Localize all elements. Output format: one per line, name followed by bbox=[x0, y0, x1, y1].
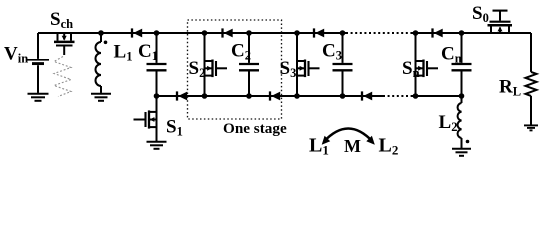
svg-text:One stage: One stage bbox=[223, 120, 287, 137]
wire bottom rail bbox=[157, 95, 384, 97]
transistor S2 bbox=[205, 33, 228, 96]
svg-text:C3: C3 bbox=[322, 41, 342, 63]
transistor S3 bbox=[297, 33, 320, 96]
svg-text:Vin: Vin bbox=[4, 44, 28, 66]
transistor S0 bbox=[488, 11, 513, 33]
svg-text:S2: S2 bbox=[189, 58, 206, 80]
transistor Sn bbox=[416, 33, 439, 96]
one stage dotted box bbox=[188, 20, 282, 119]
node S2 bottom bbox=[202, 93, 208, 99]
node C3 bottom bbox=[340, 93, 346, 99]
wire top rail dotted continuation bbox=[346, 32, 412, 34]
ground (L2) bbox=[452, 149, 471, 156]
capacitor Cn bbox=[452, 33, 472, 96]
node C1 bottom / S1 bbox=[154, 93, 160, 99]
svg-text:L2: L2 bbox=[439, 112, 458, 134]
ground (L1) bbox=[91, 94, 111, 101]
transistor S1 bbox=[134, 96, 157, 141]
node Cn top bbox=[459, 30, 465, 36]
polarity dot L1 bbox=[104, 41, 108, 45]
resistor RL bbox=[526, 33, 537, 125]
node C1 top bbox=[154, 30, 160, 36]
polarity dot L2 bbox=[466, 140, 470, 144]
diode D1 (top rail) bbox=[132, 28, 142, 37]
node S3 bottom bbox=[294, 93, 300, 99]
diode BD1 (bottom rail) bbox=[177, 91, 187, 100]
svg-text:C2: C2 bbox=[231, 41, 251, 63]
node Sn top bbox=[413, 30, 419, 36]
svg-text:L2: L2 bbox=[379, 135, 399, 158]
svg-text:S1: S1 bbox=[166, 117, 183, 139]
node Sn bottom bbox=[413, 93, 419, 99]
svg-text:Sch: Sch bbox=[50, 9, 73, 31]
ground (battery) bbox=[28, 94, 49, 101]
wire top rail bbox=[38, 32, 346, 34]
inductor L2 bbox=[458, 96, 462, 148]
dashed gate network (zigzag) bbox=[54, 57, 71, 97]
ground (RL) bbox=[524, 125, 538, 130]
capacitor C3 bbox=[333, 33, 353, 96]
node L1 top bbox=[98, 30, 104, 36]
diode D2 (top rail) bbox=[223, 28, 233, 37]
svg-text:L1: L1 bbox=[114, 42, 133, 64]
node Cn bottom / L2 bbox=[459, 93, 465, 99]
capacitor C2 bbox=[239, 33, 259, 96]
diode D3 (top rail) bbox=[314, 28, 324, 37]
svg-text:Cn: Cn bbox=[441, 44, 462, 66]
node C2 top bbox=[246, 30, 252, 36]
transistor S_ch bbox=[54, 33, 75, 55]
diode BD3 (bottom rail) bbox=[362, 91, 372, 100]
node C2 bottom bbox=[246, 93, 252, 99]
svg-text:RL: RL bbox=[499, 77, 521, 99]
diode Dn (top rail) bbox=[433, 28, 443, 37]
ground (S1) bbox=[147, 142, 167, 149]
wire bottom rail right bbox=[412, 95, 462, 97]
svg-text:S3: S3 bbox=[280, 58, 297, 80]
diode BD2 (bottom rail) bbox=[270, 91, 280, 100]
mutual inductance arc M bbox=[322, 129, 375, 145]
node C3 top bbox=[340, 30, 346, 36]
node S2 top bbox=[202, 30, 208, 36]
wire bottom rail dotted continuation bbox=[383, 95, 412, 97]
battery Vin bbox=[27, 33, 49, 93]
node S3 top bbox=[294, 30, 300, 36]
svg-text:S0: S0 bbox=[472, 3, 489, 25]
inductor L1 bbox=[96, 33, 102, 93]
svg-text:M: M bbox=[344, 136, 361, 156]
capacitor C1 bbox=[147, 33, 167, 96]
svg-text:C1: C1 bbox=[138, 41, 158, 63]
wire top rail right bbox=[412, 32, 531, 34]
